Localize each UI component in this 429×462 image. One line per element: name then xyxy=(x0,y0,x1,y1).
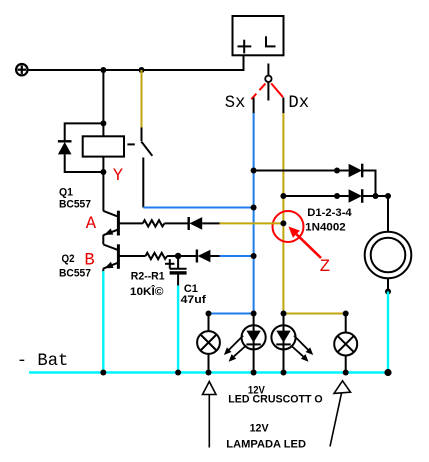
node D1/D2 join xyxy=(373,193,379,199)
wire: olive feed to lamp L3 xyxy=(284,313,346,315)
wire: lamp to bus (cyan) xyxy=(387,292,389,373)
capacitor C1 polarity + xyxy=(165,259,175,268)
wire: switch Y bottom xyxy=(142,158,144,208)
svg-text:R2--R1: R2--R1 xyxy=(131,271,165,283)
selector lever to Dx (red) xyxy=(271,83,283,97)
wire: junction to diode B xyxy=(178,255,196,257)
svg-text:BC557: BC557 xyxy=(59,199,91,211)
wire: switch Y feed (olive) xyxy=(141,70,143,127)
node before D2 xyxy=(334,193,340,199)
node Dx / row A (circled) xyxy=(280,220,286,226)
node bus C1 xyxy=(175,370,181,376)
svg-text:LAMPADA LED: LAMPADA LED xyxy=(226,439,306,451)
wire: Q2 emitter to bus (cyan) xyxy=(102,271,104,373)
switch Y lever xyxy=(141,142,152,156)
wire: Dx column (olive) xyxy=(282,113,284,314)
wire: diode to Dx row (black then olive) xyxy=(202,222,219,224)
diode to base Q2 xyxy=(197,250,211,263)
lamp L4 (lampada led, circle-X) xyxy=(334,314,357,373)
svg-text:12V: 12V xyxy=(250,423,270,435)
svg-text:Y: Y xyxy=(113,167,123,186)
resistor R1 xyxy=(118,220,188,226)
node bus D6 xyxy=(281,370,287,376)
svg-text:B: B xyxy=(84,252,94,271)
relay actuator dash xyxy=(127,143,134,145)
callout arrow cruscotto xyxy=(203,382,217,448)
wire: olive row A to Dx column xyxy=(220,222,284,224)
node lamp L3 feed xyxy=(343,311,349,317)
node Sx column bottom xyxy=(251,311,257,317)
wire: flyback diode branch bottom xyxy=(65,154,104,172)
selector lever to Sx (red, dashed) xyxy=(251,84,265,100)
svg-text:10KÎ©: 10KÎ© xyxy=(130,285,164,298)
svg-text:1N4002: 1N4002 xyxy=(305,222,346,234)
battery L terminal label xyxy=(265,36,276,46)
wire: flyback diode branch top xyxy=(65,123,104,141)
node relay top xyxy=(100,120,106,126)
wire: D1 output to junction xyxy=(362,171,375,197)
transistor Q1 (BC557) xyxy=(103,172,118,244)
node capacitor junction xyxy=(175,253,181,259)
wire: diode B stub xyxy=(210,255,219,257)
svg-text:Q1: Q1 xyxy=(59,187,73,199)
wire: negative bus (cyan) xyxy=(29,371,388,373)
diode D2 (1N4002) xyxy=(349,189,363,203)
svg-text:Z: Z xyxy=(320,258,330,277)
diode D1 (1N4002) xyxy=(349,164,363,178)
relay K1 coil box xyxy=(83,136,124,156)
flyback diode across relay xyxy=(58,141,72,154)
wire: switch Y to Sx column (blue) xyxy=(143,207,253,209)
wire: switch Y feed lower xyxy=(141,127,143,141)
svg-text:- Bat: - Bat xyxy=(17,352,69,371)
wire: Sx column (blue) xyxy=(253,113,255,314)
lamp L2 (rear lamp, double circle) xyxy=(365,232,412,279)
node on rail at relay column xyxy=(100,67,106,73)
LED D6 light arrows xyxy=(291,336,313,362)
wire: Sx contact stub xyxy=(253,98,255,115)
node Dx / row D2 xyxy=(280,193,286,199)
resistor R2 xyxy=(118,253,178,259)
wire: relay column from rail xyxy=(102,70,104,136)
wire: blue feed to lamp L1 xyxy=(209,313,254,315)
svg-text:D1-2-3-4: D1-2-3-4 xyxy=(307,207,352,219)
node lamp feed xyxy=(385,193,391,199)
node Sx / row B xyxy=(251,253,257,259)
wire: row to diode D1 xyxy=(254,170,349,172)
battery box xyxy=(233,16,284,55)
wire: lamp bottom xyxy=(387,278,389,291)
svg-text:Q2: Q2 xyxy=(62,253,75,265)
svg-text:Sx: Sx xyxy=(225,94,246,113)
svg-text:47uf: 47uf xyxy=(181,294,207,306)
node bus Q2 xyxy=(100,370,106,376)
node before D1 xyxy=(334,168,340,174)
wire: selector middle stub xyxy=(267,82,269,100)
node bus end xyxy=(384,369,391,376)
LED D5 (cruscotto led) xyxy=(242,314,266,373)
capacitor C1 xyxy=(170,256,187,286)
wire: relay bottom to node xyxy=(102,157,104,172)
battery + terminal label xyxy=(238,40,252,54)
svg-text:A: A xyxy=(86,215,97,234)
annotation arrow Z xyxy=(289,227,322,259)
svg-text:Dx: Dx xyxy=(288,94,309,113)
terminal + (circled plus, positive supply) xyxy=(16,64,27,75)
wire: blue row B to Sx column xyxy=(220,255,254,257)
node relay bottom xyxy=(100,169,106,175)
node bus L1 xyxy=(206,370,212,376)
node lamp L1 feed xyxy=(206,311,212,317)
node bus L4 xyxy=(343,370,349,376)
callout arrow lampada xyxy=(330,381,351,447)
node Sx / switch Y xyxy=(251,205,257,211)
wire: C1 to bus (cyan) xyxy=(177,286,179,373)
node bus D5 xyxy=(251,370,257,376)
node on rail at switch Y column xyxy=(139,67,145,73)
wire: row to diode D2 xyxy=(283,195,348,197)
wire: D2 output to lamp xyxy=(362,196,388,232)
node lamp bottom xyxy=(385,289,391,295)
transistor Q2 (BC557) xyxy=(103,244,118,271)
node Dx column bottom xyxy=(281,311,287,317)
svg-text:LED CRUSCOTT O: LED CRUSCOTT O xyxy=(228,394,323,406)
wire: Dx contact stub xyxy=(282,98,284,115)
annotation circle Z xyxy=(273,211,304,242)
LED D6 (cruscotto led) xyxy=(271,314,295,373)
selector pivot xyxy=(265,76,271,82)
diode to base Q1 xyxy=(189,217,203,230)
LED D5 light arrows xyxy=(224,336,246,362)
wire: selector pole from battery xyxy=(267,64,269,76)
lamp L1 (cruscotto, circle-X) xyxy=(197,314,220,373)
wire: top positive rail xyxy=(28,55,244,70)
node Sx / row D1 xyxy=(251,168,257,174)
